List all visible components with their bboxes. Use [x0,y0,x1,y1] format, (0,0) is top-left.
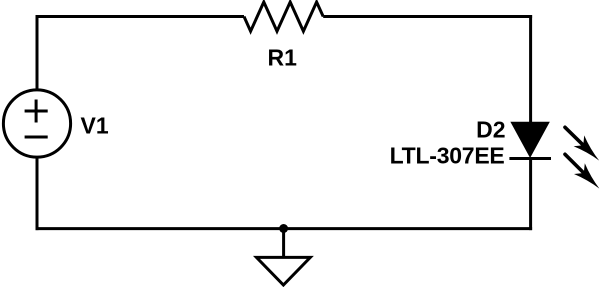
wire right upper segment [529,15,532,123]
wire right lower segment [529,159,532,231]
svg-text:D2: D2 [476,116,505,142]
LED D2 cathode bar [509,157,551,160]
wire top-left segment [36,15,245,18]
ground symbol [257,257,311,285]
voltage source V1 [3,90,70,157]
ground stub wire [282,229,285,258]
wire left lower segment [36,157,39,230]
V1 minus sign [25,136,48,139]
junction dot [279,224,288,233]
V1 plus sign [25,100,48,123]
svg-text:R1: R1 [268,45,298,71]
resistor R1 [244,2,323,31]
wire bottom segment [36,227,533,230]
wire left upper segment [36,15,39,90]
wire top-right segment [323,15,532,18]
LED D2 triangle [511,122,549,157]
LED light arrow 1 [565,127,599,160]
svg-text:V1: V1 [81,113,109,139]
LED light arrow 2 [565,154,599,188]
svg-text:LTL-307EE: LTL-307EE [390,143,505,169]
